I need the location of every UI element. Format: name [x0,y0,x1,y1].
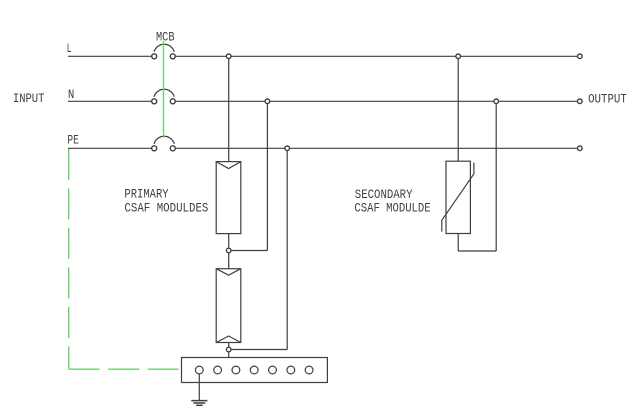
svg-text:L: L [67,42,72,56]
svg-text:PE: PE [67,134,79,148]
svg-text:N: N [68,88,75,102]
svg-text:INPUT: INPUT [13,92,45,106]
svg-text:CSAF MODULDES: CSAF MODULDES [124,201,208,215]
svg-text:CSAF MODULDE: CSAF MODULDE [354,202,430,216]
svg-text:PRIMARY: PRIMARY [124,187,169,201]
svg-text:OUTPUT: OUTPUT [588,92,627,106]
svg-text:SECONDARY: SECONDARY [355,188,413,202]
svg-text:MCB: MCB [156,31,175,45]
